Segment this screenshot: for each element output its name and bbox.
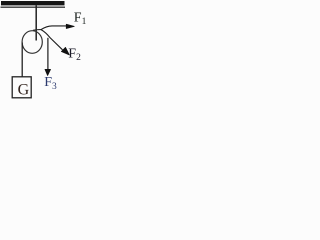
force F3 arrow (45, 38, 51, 76)
svg-text:G: G (18, 82, 30, 99)
force F2 arrow (41, 30, 69, 55)
ceiling lower line (1, 7, 66, 8)
svg-text:F1: F1 (74, 10, 87, 27)
force F1 arrow (41, 24, 74, 29)
support rod (35, 6, 37, 41)
ceiling bar (1, 1, 65, 5)
svg-text:F2: F2 (68, 47, 81, 64)
svg-text:F3: F3 (44, 75, 57, 92)
rope to weight (21, 43, 23, 78)
weight box (12, 77, 31, 98)
rope segment over pulley top (33, 29, 41, 32)
pulley wheel (22, 31, 42, 54)
